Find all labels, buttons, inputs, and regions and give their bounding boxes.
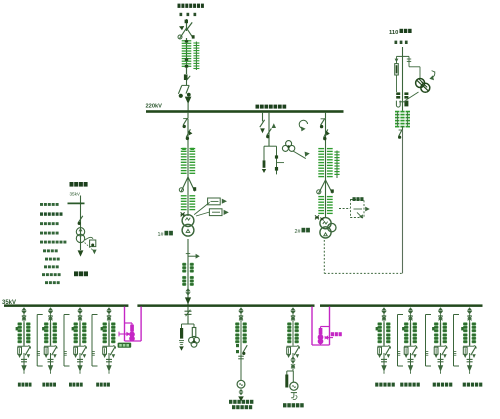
bus tie 1 breaker <box>125 323 135 341</box>
svg-text:35kV: 35kV <box>70 191 81 196</box>
disconnector 35kV PT bay section II <box>185 307 192 325</box>
bus tie 2 breaker <box>318 327 329 346</box>
wire T1 to 35kV bus with CT tap <box>186 239 200 305</box>
breaker 220kV line <box>184 74 190 80</box>
label 35kV feeder 7 <box>433 383 453 387</box>
CT windows T1 35kV side <box>182 263 193 286</box>
earthing switch assembly T1 <box>179 177 196 192</box>
earthing switch assembly 220kV line <box>178 28 195 39</box>
35kV bus PT bay feeder section <box>235 307 247 380</box>
text block transformer ratings <box>40 203 66 284</box>
label 35kV feeder 3 <box>69 383 83 387</box>
bus 35kV section III <box>320 304 483 307</box>
disconnector station transformer <box>78 216 83 225</box>
CT stack 110kV line <box>395 112 410 127</box>
CT stack T1 upper <box>181 148 195 177</box>
label 35kV bus voltage <box>2 300 16 306</box>
label 220kV bus voltage <box>146 103 163 109</box>
disconnector 220kV line lower <box>178 80 190 97</box>
arrester 35kV PT left branch <box>179 324 194 351</box>
cubicle bracket 5 <box>425 315 431 367</box>
fuse and arrester 220kV PT left branch <box>262 146 277 173</box>
bus tie 1 label tag <box>118 343 132 348</box>
hook symbol left of T2 <box>299 120 307 131</box>
label T2 2# zhubian <box>295 228 310 235</box>
svg-text:110: 110 <box>389 30 398 36</box>
cubicle bracket 1 <box>37 315 43 367</box>
LV breaker box station transformer <box>85 237 97 254</box>
feeder bay 35kV feeder 2 <box>42 307 57 374</box>
earthing switch assembly T2 <box>317 180 334 194</box>
svg-text:35kV: 35kV <box>2 300 16 306</box>
arrester 220kV bus left <box>260 112 265 133</box>
feeder bay 35kV feeder 8 <box>461 307 476 374</box>
bus tie 2 label magenta <box>331 332 342 336</box>
bus tie 1 magenta loop <box>125 307 142 342</box>
bus 35kV section I <box>4 304 128 307</box>
aux transformer 110kV with arrow <box>406 71 436 101</box>
cubicle bracket 2 <box>64 315 70 367</box>
bus tie 2 racking arrow <box>324 335 333 339</box>
label station transformer 3 <box>283 403 304 407</box>
arrow T1 into 35kV bus <box>185 288 191 304</box>
svg-text:2#: 2# <box>295 229 301 235</box>
PT earth lead with arrow <box>293 151 310 159</box>
wire incoming to 220kV bus <box>185 97 192 111</box>
wire station transformer drop <box>68 196 85 251</box>
label 35kV feeder 5 <box>375 383 395 387</box>
disconnector 220kV PT bay <box>267 112 277 146</box>
CT stack T2 lower <box>318 180 332 218</box>
disconnector T2 220kV side <box>320 112 325 128</box>
arrow station transformer <box>78 250 84 256</box>
transformer T1 (1# main) <box>181 212 194 236</box>
feeder bay 35kV feeder 1 <box>16 307 31 374</box>
dashed tie T2 to 110kV line <box>324 240 402 273</box>
neutral grounding boxes T1 <box>194 198 229 216</box>
svg-text:1#: 1# <box>158 232 164 238</box>
bus 220kV <box>146 110 344 113</box>
label 220kV bus name <box>256 105 287 109</box>
cubicle bracket 6 <box>453 315 459 367</box>
disconnector 110kV line <box>398 126 402 138</box>
feeder bay 35kV feeder 6 <box>402 307 417 374</box>
breaker T2 220kV side <box>324 119 330 148</box>
svg-text:220kV: 220kV <box>146 103 163 109</box>
cubicle bracket 4 <box>397 315 403 367</box>
cubicle bracket 3 <box>92 315 98 367</box>
bus tie 1 racking arrow <box>119 332 131 337</box>
label 35kV feeder 1 <box>18 383 32 387</box>
CT stack T1 lower <box>181 177 195 216</box>
label T1 1# zhubian <box>158 231 173 238</box>
CT stack 220kV line <box>182 38 200 74</box>
disconnector 220kV line upper <box>179 19 192 31</box>
feeder bay 35kV feeder 5 <box>376 307 391 374</box>
feeder bay 35kV feeder 4 <box>101 307 116 374</box>
label 35kV feeder 4 <box>96 383 110 387</box>
label 35kV feeder 8 <box>463 383 483 387</box>
CT stack T2 upper <box>318 148 339 180</box>
label 35kV PT bay <box>229 400 253 409</box>
transformer station service <box>76 228 84 243</box>
PT 35kV middle circle <box>237 380 245 401</box>
station transformer 3 with fuse <box>285 371 298 400</box>
label 35kV feeder 2 <box>42 383 56 387</box>
breaker T1 220kV side <box>186 119 192 148</box>
bus 35kV section II <box>137 304 314 307</box>
PT 35kV section II clover <box>189 324 200 347</box>
transformer T2 (2# main, three-winding) <box>315 215 336 238</box>
bus tie 2 magenta loop <box>312 307 330 346</box>
PT branch 220kV right <box>275 146 284 174</box>
branch 110kV to aux transformer <box>407 56 420 78</box>
label 220kV incoming line name <box>178 4 204 17</box>
wire 110kV line down <box>402 130 404 273</box>
fuse 110kV PT branch <box>395 56 399 92</box>
PT 220kV (three-phase clover) <box>282 141 294 152</box>
disconnector T1 220kV side <box>183 112 188 128</box>
station transformer 3 feeder section <box>287 307 300 371</box>
label 35kV feeder 6 <box>400 383 420 387</box>
planned equipment dashed box T2 <box>339 197 370 218</box>
PT winding cluster 110kV <box>396 56 408 110</box>
label station transformer title <box>70 182 88 196</box>
feeder bay 35kV feeder 3 <box>72 307 87 374</box>
feeder bay 35kV feeder 7 <box>432 307 447 374</box>
label 110kV line name <box>389 29 412 44</box>
wire 110kV line top split <box>397 47 410 56</box>
label under station transformer <box>74 271 88 276</box>
